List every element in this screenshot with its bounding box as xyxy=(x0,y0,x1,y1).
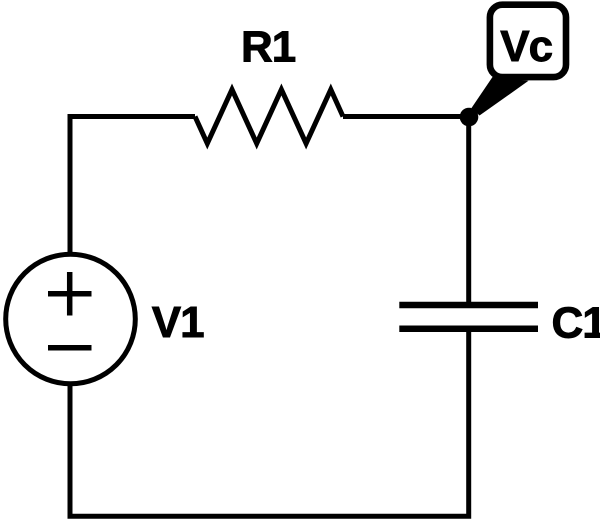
capacitor C1 top plate xyxy=(399,302,538,309)
node Vc junction dot xyxy=(460,108,479,127)
svg-text:V1: V1 xyxy=(152,298,204,347)
wire: C1 bottom plate down, bottom return wire, up to V1 bottom lead xyxy=(70,329,469,517)
wire: R1 right to node Vc xyxy=(343,114,469,119)
capacitor C1 bottom plate xyxy=(399,325,538,332)
voltage source V1 (circle body) xyxy=(6,254,136,384)
wire: node Vc down to C1 top plate xyxy=(466,117,471,306)
svg-text:C1: C1 xyxy=(552,299,600,348)
wire: V1 top lead up through top-left corner to R1 xyxy=(70,117,195,255)
V1 minus sign xyxy=(48,345,92,351)
svg-text:R1: R1 xyxy=(241,22,296,71)
resistor R1 xyxy=(195,90,343,144)
node Vc flag balloon xyxy=(490,5,566,77)
svg-text:Vc: Vc xyxy=(500,22,552,71)
node Vc flag tail xyxy=(472,77,529,116)
V1 plus sign xyxy=(48,291,92,297)
